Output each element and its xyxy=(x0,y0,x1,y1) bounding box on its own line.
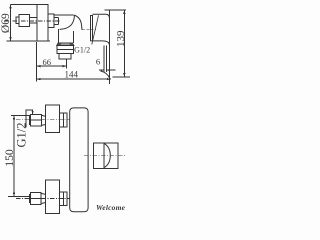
wall flange bottom edge with corner xyxy=(90,41,109,45)
spout throat left edge xyxy=(58,29,60,43)
wall line xyxy=(109,10,111,84)
mixer body tall rounded rect xyxy=(70,108,88,212)
dim 150 bottom extension line xyxy=(8,195,31,197)
neck between cartridge and spout xyxy=(54,18,58,25)
svg-text:Ø69: Ø69 xyxy=(0,13,12,33)
top connector thread cap xyxy=(28,116,30,125)
spout throat right edge xyxy=(73,31,75,43)
svg-text:139: 139 xyxy=(115,30,127,47)
svg-text:Welcome: Welcome xyxy=(96,203,126,212)
dim 6 left line + arrow xyxy=(99,69,104,71)
dim 66 arrows xyxy=(37,65,67,67)
dim 66 dimension line xyxy=(37,65,67,67)
top connector nut xyxy=(30,115,41,127)
outlet nut chamfer band xyxy=(57,43,74,46)
top nut mid line xyxy=(30,119,41,121)
wall stub dashed axis xyxy=(82,29,96,31)
bottom nut chamfer lines xyxy=(41,192,45,195)
knob stem lines xyxy=(29,17,37,19)
bottom block inner line xyxy=(63,192,65,205)
top block inner line xyxy=(63,113,65,127)
dim 66 left extension xyxy=(36,42,38,82)
svg-text:6: 6 xyxy=(96,56,100,66)
svg-text:144: 144 xyxy=(65,70,79,80)
leader for G1/2 xyxy=(92,15,99,44)
dim Ø69 top extension line xyxy=(11,4,49,6)
cartridge block xyxy=(48,14,54,28)
top flange block xyxy=(46,105,60,132)
body plate rect xyxy=(37,5,48,41)
spout outer curve xyxy=(74,15,82,30)
svg-text:66: 66 xyxy=(43,57,52,67)
wall flange rounded rect xyxy=(92,14,109,44)
bottom connector thread cap xyxy=(29,194,31,203)
bottom cartridge block xyxy=(60,192,67,205)
dim 144 dimension line xyxy=(37,78,111,80)
dim 139 dimension line xyxy=(123,10,125,77)
outlet nut mid line xyxy=(57,48,73,50)
hook curve from 6-dim to 144 arrow xyxy=(101,71,110,79)
dim 6 extension lines xyxy=(103,46,105,72)
outlet pipe end xyxy=(59,53,71,59)
dim 139 top tick xyxy=(105,9,127,11)
dim 150 dimension line xyxy=(13,115,15,196)
bottom connector nut xyxy=(31,192,42,204)
knob dome arc xyxy=(104,143,110,167)
dim Ø69 dimension line xyxy=(10,5,12,41)
dim Ø69 arrows xyxy=(9,5,11,41)
chamfer corner shadows xyxy=(57,43,74,46)
outlet nut body xyxy=(57,46,73,54)
dim 144 arrows xyxy=(37,78,111,80)
bottom flange block xyxy=(45,180,59,214)
knob dome chord line xyxy=(103,143,105,169)
knob square (front of handle) xyxy=(94,143,118,168)
dim 139 arrows xyxy=(123,10,125,77)
bottom nut mid line xyxy=(31,197,42,199)
top connector dashed axis xyxy=(16,119,70,121)
dim 150 arrows xyxy=(13,115,15,196)
dim Ø69 bottom extension / body bottom line xyxy=(7,40,50,42)
handle knob side view xyxy=(19,15,29,27)
dim 6 right line + arrow xyxy=(107,69,116,71)
dashed centerline of body axis xyxy=(4,20,60,22)
knob dashed axis xyxy=(84,155,126,157)
top nut chamfer lines xyxy=(42,114,46,117)
spout top edge xyxy=(54,14,73,16)
bottom connector dashed axis xyxy=(16,197,70,199)
leader for G1/2 bottom xyxy=(26,110,33,128)
svg-text:150: 150 xyxy=(3,149,16,167)
spout inner fin curve xyxy=(60,15,75,29)
knob end cap xyxy=(16,17,19,24)
top cartridge block xyxy=(60,113,67,127)
dim 139 bottom tick xyxy=(113,76,131,78)
dim 66 right extension xyxy=(66,60,68,69)
dim 150 top extension line xyxy=(11,114,30,116)
escutcheon plate edge strip xyxy=(90,15,92,40)
svg-text:G1/2: G1/2 xyxy=(74,45,90,54)
